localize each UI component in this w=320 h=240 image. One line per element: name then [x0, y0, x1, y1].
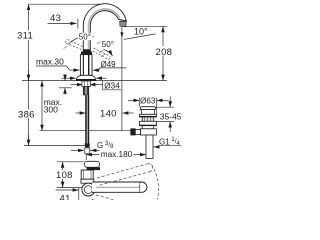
lever pivot cap [83, 49, 90, 51]
threaded neck [142, 117, 154, 121]
41 extension line [78, 188, 80, 200]
dashed swung spout down [96, 195, 144, 208]
max300 vertical dimension line [41, 81, 43, 131]
deck thickness arrows [64, 74, 66, 80]
dia49 underline [100, 67, 127, 69]
G114 leader arrow [154, 146, 159, 148]
10deg tilted line [124, 34, 156, 40]
top reference line [29, 3, 101, 5]
G38 underline [95, 149, 113, 151]
counter top line [22, 80, 167, 82]
43 extension tick [77, 19, 79, 29]
svg-text:50°: 50° [79, 33, 91, 42]
plug body [141, 110, 154, 115]
svg-text:140: 140 [100, 108, 117, 119]
svg-text:10°: 10° [134, 27, 148, 37]
140 dimension arrows [76, 112, 86, 114]
G38 nut dimension arrows [71, 149, 84, 151]
max180 left extension [85, 152, 87, 160]
386 reference line [24, 145, 86, 147]
washer [142, 126, 154, 129]
108 dimension line [62, 162, 64, 188]
side stub [135, 129, 140, 134]
tailpipe [146, 135, 153, 159]
svg-text:Ø49: Ø49 [101, 60, 117, 69]
10deg horizontal line [122, 25, 167, 27]
collar [81, 179, 94, 183]
208 vertical dimension line [162, 26, 164, 80]
lever handle outline [85, 161, 100, 167]
aerator [120, 21, 126, 27]
386 bottom arrow [28, 135, 30, 146]
dia63 extension lines [138, 98, 140, 107]
dashed swung spout up [92, 164, 159, 211]
tee body [140, 129, 156, 135]
svg-text:300: 300 [44, 104, 58, 114]
white backings [16, 31, 33, 41]
svg-text:386: 386 [18, 109, 35, 120]
35-45 upper line and arrow [156, 106, 174, 108]
deck underside reference line [59, 87, 72, 89]
spout arm [92, 182, 147, 192]
max30 leader arrow [67, 66, 70, 70]
hose end / rod line [40, 130, 131, 132]
plan spout axis line [57, 187, 82, 189]
water stream arrowhead [120, 32, 123, 38]
svg-text:311: 311 [17, 31, 33, 42]
svg-text:41: 41 [60, 193, 71, 200]
svg-text:108: 108 [56, 170, 73, 181]
flange dimension arrows [62, 77, 76, 79]
threaded shank [82, 81, 91, 87]
dia34 tick and underline [102, 81, 104, 90]
svg-text:max.30: max.30 [36, 57, 64, 67]
swivel arcs [68, 36, 113, 56]
dashed lever tilted right [94, 48, 111, 57]
svg-text:Ø63: Ø63 [140, 97, 156, 106]
dia34 shank arrows [71, 84, 83, 86]
dia63 dimension arrows [128, 99, 139, 101]
plan body [81, 170, 93, 179]
flange [140, 114, 157, 117]
dashed lever tilted left [65, 43, 82, 50]
G114 underline [159, 145, 182, 147]
dashed swivel arc [152, 165, 159, 200]
max180 dimension line [86, 154, 146, 156]
lever dark bar [87, 167, 100, 170]
svg-text:208: 208 [156, 47, 173, 58]
311 bottom arrow [28, 70, 30, 81]
dia49 leader arrow [98, 68, 101, 70]
backnut [140, 121, 157, 125]
hatch marks right of body [64, 42, 106, 57]
base flange [76, 75, 96, 80]
knurled nut [131, 129, 135, 135]
43 dimension line [48, 22, 77, 24]
108 top reference line [57, 161, 84, 163]
svg-text:50°: 50° [102, 40, 114, 49]
swivel base circle [82, 183, 95, 196]
35-45 lower line and arrow [157, 121, 174, 123]
max30 underline [36, 65, 67, 67]
svg-text:35-45: 35-45 [160, 111, 182, 121]
pipe flare end [85, 144, 90, 148]
gooseneck spout tube [83, 4, 126, 52]
mixer body [80, 55, 92, 76]
svg-text:max.180: max.180 [101, 150, 133, 159]
311/386 vertical dimension line [28, 4, 30, 145]
svg-text:Ø34: Ø34 [104, 82, 120, 91]
supply pipe [85, 95, 89, 144]
svg-text:43: 43 [50, 13, 61, 24]
41 dimension arrow [56, 189, 79, 191]
plug lip [140, 107, 155, 110]
spout axis extension line [121, 27, 123, 131]
G38 nut [85, 148, 90, 154]
